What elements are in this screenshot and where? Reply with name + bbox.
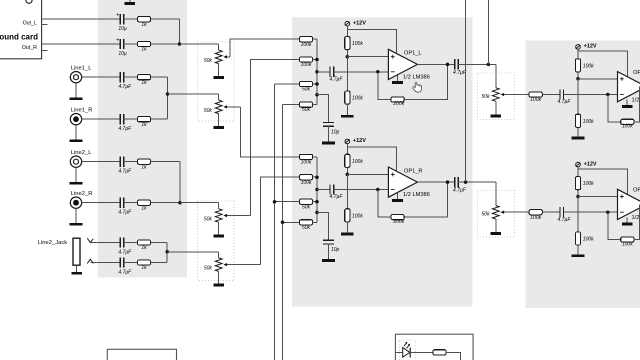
op-amp OP1_R (1/2 LM386): [388, 167, 417, 197]
wire: [124, 202, 138, 204]
resistor 100k (OP2_L bias lower): [575, 114, 580, 127]
op-amp ground pin: [397, 193, 399, 199]
svg-text:50k: 50k: [302, 107, 311, 113]
wire summing bus: [316, 39, 318, 104]
wire output: [458, 63, 496, 65]
resistor 50k (OP1_L input 4): [299, 102, 312, 107]
wire: [151, 118, 168, 120]
op-amp ground pin: [626, 217, 628, 222]
svg-text:10µ: 10µ: [118, 51, 127, 57]
wire: [577, 197, 579, 232]
svg-text:1k: 1k: [141, 164, 147, 170]
svg-text:50k: 50k: [302, 87, 311, 93]
wire to top edge (record out R): [465, 0, 467, 182]
wire: [317, 71, 330, 73]
svg-text:100k: 100k: [352, 96, 363, 102]
ground (top edge): [129, 0, 131, 2]
junction: [346, 173, 350, 177]
svg-text:+: +: [116, 13, 119, 19]
dotted box around output pot L: [478, 73, 515, 120]
svg-text:50k: 50k: [302, 204, 311, 210]
pot wiper wire: [502, 211, 529, 213]
LED arrows: [404, 343, 409, 348]
wire: [346, 222, 348, 233]
wire: [410, 351, 433, 353]
background region: OP1 mixer section: [292, 17, 473, 306]
junction: [346, 55, 350, 59]
svg-text:4.7µF: 4.7µF: [118, 84, 132, 90]
wire: [334, 189, 389, 191]
wire: [328, 244, 330, 260]
resistor 1k: [137, 17, 150, 22]
resistor 100k (OP2_L bias upper): [575, 59, 580, 72]
wire to Line2 volume pot: [180, 202, 219, 204]
junction: [606, 210, 610, 214]
svg-text:4.7µF: 4.7µF: [453, 70, 467, 76]
dotted box around volume pots 1-2: [198, 42, 234, 121]
ground: [341, 115, 354, 118]
svg-text:100k: 100k: [301, 62, 312, 68]
wire to sound-card volume pot: [180, 43, 219, 45]
jack tip contact: [87, 238, 93, 242]
ground: [213, 284, 224, 287]
hand cursor icon: [413, 82, 422, 92]
dotted box around LED: [399, 340, 415, 360]
ground: [70, 139, 83, 142]
wire: [563, 94, 617, 96]
pot wiper wire: [502, 94, 529, 96]
svg-text:200k: 200k: [392, 219, 404, 225]
wire feedback: [404, 182, 447, 217]
resistor 100k (OP1_L input 1): [299, 37, 312, 42]
resistor 1k: [137, 117, 150, 122]
power +12V (OP1_L): [345, 21, 350, 26]
junction: [376, 188, 380, 192]
pin circle on sound card top: [26, 0, 32, 3]
wire feedback: [404, 64, 447, 99]
ground: [70, 182, 83, 185]
svg-text:+12V: +12V: [584, 44, 597, 50]
resistor 50k (OP1_L input 3): [299, 81, 312, 86]
resistor 100k (OP2_R feedback): [621, 237, 634, 242]
svg-text:100k: 100k: [583, 64, 594, 70]
junction: [315, 58, 319, 62]
wire: [317, 212, 329, 240]
potentiometer 50k (Line2 volume): [215, 209, 222, 223]
wire feedback: [634, 204, 640, 239]
ground: [213, 126, 224, 129]
capacitor 4.7µF: [120, 157, 124, 167]
wire joining jack tip and ring rows: [166, 243, 168, 263]
resistor 100k (OP1_R input 2): [299, 175, 312, 180]
resistor 1k: [137, 75, 150, 80]
junction: [315, 175, 319, 179]
wire +12V rail to op-amp: [347, 29, 396, 53]
wire feedback: [378, 72, 391, 100]
wire feedback: [608, 212, 621, 239]
wire to OP1_L input row 3: [275, 83, 300, 85]
op-amp OP2_L (1/2 LM386): [618, 72, 640, 102]
svg-text:Out_L: Out_L: [23, 20, 37, 26]
junction: [166, 92, 170, 96]
ground: [71, 272, 82, 275]
op-amp ground pin: [397, 75, 399, 81]
svg-text:50k: 50k: [482, 212, 491, 218]
svg-text:4.7µF: 4.7µF: [118, 126, 132, 132]
wire: [218, 252, 220, 258]
wire to + input: [347, 173, 388, 175]
resistor 1k: [137, 41, 150, 46]
svg-text:Sound card: Sound card: [0, 33, 38, 42]
resistor 100k (OP2_R bias lower): [575, 232, 580, 245]
wire: [218, 44, 220, 50]
capacitor 4.7µF (OP1_R output): [455, 177, 459, 187]
wire: [218, 114, 220, 126]
svg-text:100k: 100k: [622, 241, 633, 247]
svg-text:1/2 LM386: 1/2 LM386: [403, 74, 430, 80]
capacitor 10p (OP1_L): [323, 123, 334, 127]
wire: [313, 83, 317, 85]
pot wiper wire to OP1_R input row 2: [225, 264, 261, 266]
svg-text:4.7µF: 4.7µF: [453, 188, 467, 194]
ground: [213, 76, 224, 79]
wire: [495, 101, 497, 114]
ground: [322, 142, 335, 145]
junction: [315, 70, 319, 74]
svg-text:100k: 100k: [301, 180, 312, 186]
svg-text:10p: 10p: [331, 130, 340, 136]
pin stub: [42, 50, 48, 52]
sound card box: [0, 0, 42, 59]
wire summing bus: [316, 157, 318, 222]
svg-text:4.7µF: 4.7µF: [558, 217, 572, 223]
wire OP1_R out down to pot: [495, 182, 497, 205]
wire to OP1_R input row 3: [275, 201, 300, 203]
wire: [90, 242, 120, 244]
wire: [334, 71, 389, 73]
svg-text:Line2_Jack: Line2_Jack: [38, 240, 67, 246]
wire: [495, 219, 497, 232]
pin Out_L: [42, 18, 49, 20]
wire: [124, 18, 138, 20]
wire joining Line1_L to Line1_R node: [167, 77, 169, 119]
wire: [346, 50, 348, 57]
junction: [281, 221, 285, 225]
wire: [75, 125, 77, 139]
wire: [124, 76, 138, 78]
wire: [313, 221, 317, 223]
op-amp OP1_L (1/2 LM386): [388, 49, 417, 79]
wire: [124, 118, 138, 120]
capacitor 10p (OP1_R): [323, 240, 334, 244]
capacitor 4.7µF (OP2_R input): [560, 207, 564, 217]
wire output: [417, 63, 454, 65]
wire to jack volume pot: [167, 251, 219, 253]
wire: [346, 167, 348, 174]
resistor (LED series): [433, 350, 446, 355]
svg-text:OP2_R: OP2_R: [633, 188, 640, 194]
capacitor 4.7µF: [120, 114, 124, 124]
capacitor 4.7µF: [120, 257, 124, 267]
wire: [542, 211, 560, 213]
wire: [577, 245, 579, 254]
svg-text:1k: 1k: [141, 122, 147, 128]
wire: [90, 262, 120, 264]
svg-text:100k: 100k: [530, 97, 541, 103]
junction: [606, 93, 610, 97]
wire: [218, 271, 220, 283]
dotted box around output pot R: [478, 191, 515, 238]
wire feedback: [634, 87, 640, 122]
junction: [315, 200, 319, 204]
resistor 50k (OP1_R input 3): [299, 199, 312, 204]
wire: [75, 167, 77, 182]
capacitor 4.7µF (OP1_L output): [455, 59, 459, 69]
resistor 1k: [137, 240, 150, 245]
junction: [165, 250, 169, 254]
wire to OP1_R input row 4: [283, 221, 300, 223]
ground: [70, 223, 83, 226]
resistor 100k (OP2_R input): [529, 210, 542, 215]
svg-text:200k: 200k: [392, 101, 404, 107]
junction: [315, 93, 319, 97]
svg-text:Line2_L: Line2_L: [71, 150, 92, 156]
wire: [151, 262, 168, 264]
svg-text:100k: 100k: [622, 124, 633, 130]
resistor 50k (OP1_R input 4): [299, 220, 312, 225]
capacitor 4.7µF (OP1_R input coupling): [330, 184, 334, 194]
svg-text:10p: 10p: [331, 247, 340, 253]
svg-text:4.7µF: 4.7µF: [118, 270, 132, 276]
wire +12V rail to op-amp: [347, 147, 396, 171]
wire to + input: [347, 56, 388, 58]
wire to + input: [578, 196, 618, 198]
wire: [542, 94, 560, 96]
wire joining Line2_L to Line2_R node: [179, 162, 181, 203]
svg-text:100k: 100k: [583, 237, 594, 243]
svg-text:4.7µF: 4.7µF: [118, 210, 132, 216]
svg-text:100k: 100k: [301, 160, 312, 166]
wire: [313, 38, 317, 40]
svg-text:100k: 100k: [530, 215, 541, 221]
resistor 100k (OP1_L bias upper): [345, 37, 350, 50]
wire: [82, 161, 121, 163]
svg-text:100k: 100k: [352, 213, 363, 219]
wire: [124, 262, 138, 264]
pot wiper wire to OP1_L input row 1: [225, 56, 230, 58]
wire output: [417, 181, 454, 183]
resistor 1k: [137, 260, 150, 265]
wire: [577, 72, 579, 79]
svg-text:+12V: +12V: [584, 161, 597, 167]
wire joining Out_L to Out_R node: [179, 19, 181, 44]
wire: [42, 43, 121, 45]
svg-text:10µ: 10µ: [118, 26, 127, 32]
svg-text:1k: 1k: [141, 205, 147, 211]
svg-text:50k: 50k: [204, 108, 213, 114]
svg-text:4.7µF: 4.7µF: [330, 194, 344, 200]
svg-text:Line1_L: Line1_L: [71, 65, 92, 71]
wire: [346, 26, 348, 36]
wire: [563, 211, 617, 213]
power +12V (OP2_R): [576, 162, 581, 167]
svg-text:Out_R: Out_R: [22, 45, 37, 51]
wire: [317, 95, 329, 123]
wire: [151, 43, 180, 45]
ground: [491, 114, 502, 117]
junction: [315, 188, 319, 192]
wire: [577, 50, 579, 59]
junction: [446, 180, 450, 184]
wire: [82, 118, 121, 120]
wire: [218, 64, 220, 76]
wire: [346, 174, 348, 208]
svg-text:100k: 100k: [352, 159, 363, 165]
ground: [491, 232, 502, 235]
pot wiper wire to OP1_R input row 1: [225, 106, 241, 108]
svg-text:50k: 50k: [204, 266, 213, 272]
svg-text:+12V: +12V: [353, 21, 366, 27]
wire: [124, 43, 138, 45]
wire: [395, 351, 402, 353]
svg-text:50k: 50k: [302, 225, 311, 231]
wire: [75, 208, 77, 223]
svg-text:OP1_L: OP1_L: [404, 51, 422, 57]
junction: [315, 211, 319, 215]
svg-text:OP1_R: OP1_R: [404, 168, 423, 174]
svg-text:4.7µF: 4.7µF: [118, 250, 132, 256]
svg-text:50k: 50k: [204, 217, 213, 223]
wire: [151, 18, 180, 20]
wire: [313, 59, 317, 61]
svg-text:OP2_L: OP2_L: [633, 70, 640, 76]
wire: [346, 104, 348, 115]
wire: [313, 104, 317, 106]
wire: [317, 189, 330, 191]
svg-text:1k: 1k: [141, 265, 147, 271]
potentiometer 50k (output level R): [492, 206, 499, 220]
junction: [487, 63, 491, 67]
wire to Line1 volume pot: [168, 93, 219, 95]
wire: [218, 203, 220, 209]
jack ring contact: [87, 259, 93, 263]
svg-text:1/2 LM386: 1/2 LM386: [632, 97, 640, 103]
svg-text:100k: 100k: [583, 119, 594, 125]
capacitor 4.7µF: [120, 198, 124, 208]
box (off-screen component): [107, 349, 176, 360]
wire OP1_L out down to pot: [495, 64, 497, 87]
svg-text:Line2_R: Line2_R: [71, 191, 93, 197]
resistor 100k (OP2_R bias upper): [575, 177, 580, 190]
svg-text:100k: 100k: [352, 41, 363, 47]
junction: [315, 82, 319, 86]
capacitor 4.7µF: [120, 237, 124, 247]
ground: [572, 137, 585, 140]
op-amp ground pin: [626, 100, 628, 105]
junction: [178, 42, 182, 46]
svg-text:1k: 1k: [141, 80, 147, 86]
svg-text:1k: 1k: [141, 245, 147, 251]
wire: [577, 190, 579, 197]
resistor 100k (OP1_R bias lower): [345, 209, 350, 222]
resistor 100k (OP1_L input 2): [299, 57, 312, 62]
wire to top edge (record out L): [487, 0, 489, 64]
ground: [322, 259, 335, 262]
resistor 1k: [137, 200, 150, 205]
potentiometer 50k (Line1 volume): [215, 100, 222, 114]
resistor 100k (OP1_L bias lower): [345, 91, 350, 104]
wire: [577, 167, 579, 176]
svg-text:4.7µF: 4.7µF: [118, 169, 132, 175]
potentiometer 50k (sound card volume): [215, 50, 222, 64]
wire: [151, 76, 168, 78]
wire: [346, 144, 348, 154]
junction: [464, 180, 468, 184]
potentiometer 50k (jack volume): [215, 258, 222, 272]
resistor 100k (OP2_L input): [529, 92, 542, 97]
svg-text:1/2 LM386: 1/2 LM386: [403, 192, 430, 198]
ground: [213, 235, 224, 238]
wire output: [458, 181, 496, 183]
junction: [178, 201, 182, 205]
background region: input section: [98, 0, 187, 278]
wire +12V rail to op-amp: [578, 169, 628, 194]
wire to OP1_L input row 4: [283, 104, 300, 106]
wire to + input: [578, 78, 618, 80]
wire bus (aux input B) to bottom edge: [282, 105, 284, 360]
junction: [446, 63, 450, 67]
wire: [313, 156, 317, 158]
wire: [218, 222, 220, 234]
resistor 200k (OP1_R feedback): [391, 215, 404, 220]
wire: [313, 176, 317, 178]
ground: [70, 97, 83, 100]
wire: [346, 57, 348, 91]
capacitor 4.7µF: [120, 72, 124, 82]
wire: [446, 352, 460, 360]
junction: [376, 70, 380, 74]
wire: [313, 201, 317, 203]
svg-text:4.7µF: 4.7µF: [330, 76, 344, 82]
wire feedback: [608, 95, 621, 122]
ground: [572, 254, 585, 257]
svg-text:50k: 50k: [204, 58, 213, 64]
resistor 1k: [137, 159, 150, 164]
svg-text:100k: 100k: [583, 181, 594, 187]
wire: [82, 76, 121, 78]
wire: [328, 126, 330, 142]
LED: [403, 348, 410, 358]
wire: [151, 161, 180, 163]
wire: [82, 202, 121, 204]
svg-text:1/2 LM386: 1/2 LM386: [632, 215, 640, 221]
wire feedback: [378, 190, 391, 218]
wire: [75, 83, 77, 98]
resistor 200k (OP1_L feedback): [391, 97, 404, 102]
pin stub: [42, 23, 48, 25]
power +12V (OP2_L): [576, 45, 581, 50]
wire: [577, 127, 579, 136]
junction: [273, 200, 277, 204]
wire: [42, 18, 121, 20]
background region: output amp section: [526, 41, 640, 309]
wire: [151, 202, 180, 204]
resistor 100k (OP1_R input 1): [299, 154, 312, 159]
wire: [218, 94, 220, 100]
svg-text:+: +: [116, 37, 119, 43]
svg-text:1k: 1k: [141, 22, 147, 28]
pot wiper wire to OP1_L input row 2: [225, 215, 251, 217]
